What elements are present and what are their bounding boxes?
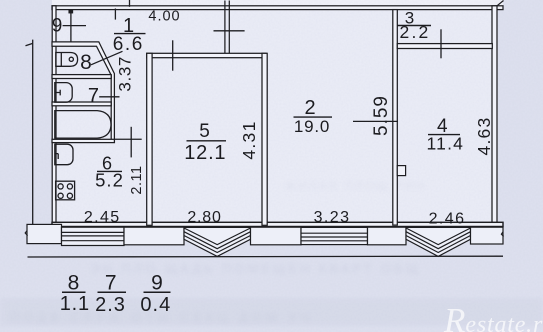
stove burner 1 — [58, 184, 63, 189]
svg-text:7: 7 — [105, 272, 117, 295]
tick door hallway/room2 — [214, 30, 245, 32]
fraction line room5 — [187, 140, 227, 142]
fraction line room4 — [428, 134, 460, 136]
svg-text:0.4: 0.4 — [140, 294, 171, 316]
wall hallway/room2 right line — [228, 1, 230, 55]
loggia lines — [62, 232, 125, 240]
wall rooms2/4 — [393, 10, 398, 226]
wall room5 right — [262, 53, 267, 225]
svg-text:ЭН ПЛО ЩАДЬ ПОМЕЩЕН КВАРТ: ЭН ПЛО ЩАДЬ ПОМЕЩЕН КВАРТ ОБЩ — [90, 261, 421, 276]
svg-text:2.3: 2.3 — [95, 294, 126, 316]
balcony right end cap — [471, 227, 504, 244]
closet9 wall cap — [69, 10, 72, 13]
leader room7 — [99, 96, 119, 98]
sink room8 — [56, 53, 78, 67]
plan interior — [52, 0, 498, 227]
balcony plain C — [368, 227, 407, 245]
legend 8 line — [62, 291, 86, 293]
svg-text:2.46: 2.46 — [429, 210, 466, 227]
chevron 2 inner V lines — [406, 228, 471, 253]
tick door kitchen — [130, 127, 132, 158]
fraction line room6 — [97, 170, 122, 172]
svg-text:7: 7 — [88, 85, 99, 107]
exterior wall bottom — [52, 222, 503, 226]
svg-text:9: 9 — [151, 272, 163, 295]
svg-text:3.37: 3.37 — [116, 56, 135, 92]
dim line 5.59 — [353, 120, 398, 122]
legend 9 line — [144, 291, 171, 293]
sink room8 divider — [60, 53, 62, 67]
pier room4 wall — [397, 166, 405, 176]
balcony plain A — [124, 227, 184, 245]
svg-text:2: 2 — [304, 97, 315, 119]
svg-text:8: 8 — [80, 51, 92, 74]
kitchen sink — [55, 144, 73, 165]
svg-text:9: 9 — [52, 16, 63, 37]
wall room5 left (kitchen right) — [147, 53, 152, 225]
svg-text:1.1: 1.1 — [60, 293, 90, 315]
stove burner 2 — [67, 184, 72, 189]
loggia lines 2 — [301, 233, 368, 241]
fraction line room3 — [397, 25, 431, 27]
paper strip above top wall — [52, 0, 503, 6]
balcony right cap break mark — [501, 232, 503, 237]
balcony left cap break mark — [25, 231, 27, 236]
stove burner 4 — [67, 193, 72, 198]
loggia lined below room2 — [301, 227, 368, 244]
balcony plain B — [251, 227, 302, 245]
wall room8 top + slant + bath right wall — [52, 42, 114, 142]
svg-text:5: 5 — [199, 121, 210, 142]
leader room8 — [91, 51, 123, 65]
wall rooms8/7 divider — [52, 75, 111, 79]
bathtub — [55, 111, 111, 139]
chevron 1 inner V lines — [184, 228, 251, 253]
building edge tick — [26, 43, 33, 45]
svg-text:4.63: 4.63 — [474, 117, 494, 156]
faint smudge row bottom — [0, 298, 543, 326]
top-right corner notch — [497, 1, 504, 6]
svg-text:5.2: 5.2 — [95, 169, 124, 190]
svg-text:11.4: 11.4 — [427, 134, 465, 154]
ground line — [28, 255, 504, 258]
tick top wall dim 4.00 below — [114, 9, 116, 20]
loggia lined below kitchen — [62, 227, 125, 245]
tick door room3 — [440, 29, 442, 58]
wall room5 top — [147, 53, 266, 57]
balcony chevron 2 — [406, 227, 471, 256]
svg-text:6.6: 6.6 — [113, 34, 144, 55]
wall hallway/room2 left line — [224, 1, 226, 55]
sink room8 drain — [69, 57, 73, 61]
balcony chevron 1 — [184, 227, 251, 256]
svg-text:4.00: 4.00 — [148, 8, 180, 24]
balcony left end cap — [27, 224, 62, 243]
stove — [56, 181, 75, 200]
svg-text:ЖИЛАЯ ПЛОЩ РИН: ЖИЛАЯ ПЛОЩ РИН — [285, 179, 426, 193]
toilet room7 — [55, 83, 72, 103]
tick door room5 — [172, 40, 174, 70]
legend 7 line — [98, 291, 127, 293]
tick top wall dim 4.00 above — [129, 0, 131, 7]
svg-text:2.45: 2.45 — [84, 209, 121, 226]
svg-text:2.2: 2.2 — [400, 22, 431, 42]
svg-text:19.0: 19.0 — [294, 117, 330, 136]
svg-text:12.1: 12.1 — [184, 142, 226, 164]
building edge line — [32, 40, 34, 225]
exterior wall right — [492, 6, 497, 227]
exterior wall top — [52, 6, 503, 10]
svg-text:8: 8 — [68, 272, 80, 295]
svg-text:4.31: 4.31 — [239, 120, 259, 159]
fraction line room2 — [294, 116, 333, 118]
wall room3 bottom — [397, 44, 492, 49]
svg-text:2.11: 2.11 — [129, 165, 145, 194]
leader room9 — [63, 25, 86, 27]
toilet tap — [55, 90, 60, 96]
wall closet9 — [70, 10, 72, 42]
wall corridor/kitchen upper line — [114, 138, 141, 140]
wall bath bottom — [52, 139, 114, 142]
kitchen sink tap — [55, 154, 58, 159]
fraction line room1 — [114, 33, 146, 35]
svg-text:3.23: 3.23 — [314, 209, 351, 226]
stove burner 3 — [58, 193, 63, 198]
svg-text:2.80: 2.80 — [187, 209, 221, 226]
svg-text:5.59: 5.59 — [371, 95, 392, 136]
wall room7/bath divider — [52, 102, 111, 106]
exterior wall left — [52, 6, 56, 227]
